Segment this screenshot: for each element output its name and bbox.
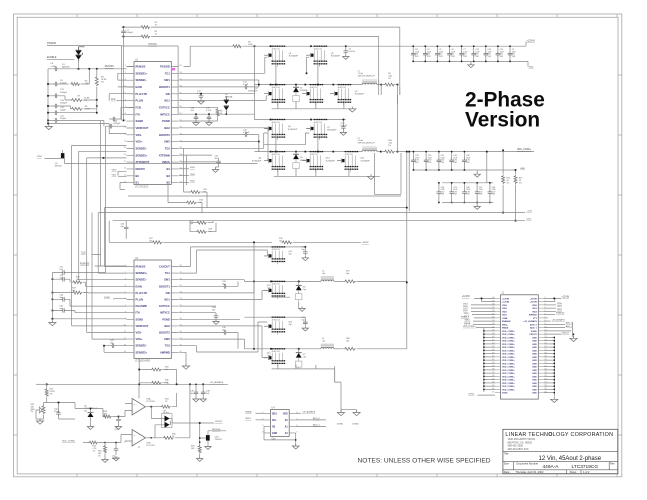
svg-text:GND: GND [532,373,537,375]
svg-text:VDD_CORE+: VDD_CORE+ [502,386,516,388]
svg-text:CROUT: CROUT [529,334,537,336]
net label CROUT analog [199,421,223,442]
svg-text:2N7002: 2N7002 [55,165,63,167]
svg-text:-: - [134,441,135,444]
svg-text:470pF: 470pF [54,411,60,413]
svg-text:Opt: Opt [110,342,114,345]
op-amp U5B LTC1991 [132,430,155,449]
wire phase1 gnd bus [272,102,356,112]
svg-text:100K: 100K [248,44,253,46]
svg-text:ITH: ITH [136,311,140,315]
capacitor C18 intvcc [191,108,200,126]
svg-text:Opt: Opt [267,286,271,289]
resistor R2 [140,31,158,38]
svg-text:VDD_CORE+: VDD_CORE+ [502,354,516,356]
svg-text:220pF: 220pF [60,118,67,120]
transistor Q4 dual [151,407,199,438]
svg-text:Opt: Opt [121,225,125,228]
wire TG1 gate drive [179,57,309,74]
svg-text:VDD_CORE+: VDD_CORE+ [502,350,516,352]
wire output row B rail [442,151,493,183]
svg-text:RUN/SS: RUN/SS [105,65,114,68]
svg-text:+12VIN: +12VIN [561,297,569,299]
svg-text:1%: 1% [101,82,104,84]
svg-text:GND: GND [532,344,537,346]
svg-text:SCL: SCL [272,420,277,422]
svg-text:Si7440DP: Si7440DP [361,160,371,162]
title block [503,429,618,474]
capacitor C33 boost [179,281,238,289]
svg-text:SENSE1+: SENSE1+ [136,271,148,275]
svg-text:VID1: VID1 [557,306,563,308]
net label +3V_ALWAYS U4 [296,411,316,414]
svg-text:Opt: Opt [222,329,226,332]
wire B1 down [120,182,127,189]
svg-text:SGND: SGND [136,119,144,123]
svg-text:B3: B3 [166,174,170,178]
wire U2 sw1 [179,280,244,282]
controller U2 LTC1629 [124,257,183,363]
svg-text:VID1: VID1 [112,175,118,177]
capacitor C17 vin bypass [197,91,204,105]
svg-text:Title: Title [504,452,509,456]
wire U2 bg2 [179,326,267,358]
capacitor C29 output row B [449,182,458,203]
net label SMDA [245,411,264,414]
svg-text:VDD_CORE+: VDD_CORE+ [502,344,516,346]
capacitor C48 [200,384,210,402]
resistor R13 [514,169,522,221]
wire J1 sgnd stub [544,330,572,332]
svg-text:SYNC: SYNC [502,393,508,395]
svg-text:CLKOUT: CLKOUT [159,265,170,269]
svg-text:1000pF: 1000pF [126,32,134,34]
capacitor C40 opt [290,317,309,331]
svg-text:INTVCC: INTVCC [160,112,170,116]
svg-text:VDD_CORE+: VDD_CORE+ [502,334,516,336]
svg-text:Si7440DP: Si7440DP [355,94,365,96]
svg-text:Si7440DP: Si7440DP [252,160,262,162]
svg-text:VDIFFOUT: VDIFFOUT [136,126,149,130]
ground output caps A [474,170,480,177]
svg-text:B1: B1 [136,181,140,185]
transistor Q15 opt [264,348,285,366]
svg-text:Sheet: Sheet [570,470,577,474]
svg-text:ENABLE: ENABLE [461,315,470,318]
svg-text:GND: GND [532,341,537,343]
svg-text:Si7440DP: Si7440DP [289,56,299,58]
svg-text:TG1: TG1 [165,71,171,75]
svg-text:BeThe: BeThe [163,412,169,414]
svg-text:Opt: Opt [302,248,306,251]
svg-text:ADD_0: ADD_0 [566,322,574,325]
wire sense line C [113,220,525,222]
svg-text:BG1: BG1 [164,99,170,103]
wire phase1 SW link [276,60,318,84]
svg-text:Opt: Opt [84,409,88,412]
net label VID1 U1 [112,175,127,177]
capacitor C43 [212,307,219,324]
svg-text:B2: B2 [166,181,170,185]
svg-text:Opt: Opt [60,276,64,279]
inductor L3 opt [321,271,340,282]
wire sense line A [104,207,406,209]
svg-text:EAIN: EAIN [136,85,142,89]
svg-text:0.47uF: 0.47uF [341,125,348,127]
capacitor C21 input [411,45,420,62]
wire row B bottom [272,296,290,298]
transistor Q8 [252,151,285,172]
capacitor C12 [47,89,68,100]
svg-text:BG2: BG2 [164,126,170,130]
svg-text:Opt: Opt [190,392,194,395]
wire opamp A input [75,403,132,417]
svg-text:Rev: Rev [610,461,615,465]
transistor Q7 [306,119,337,140]
svg-text:5%: 5% [519,182,522,184]
wire J1 VDD_CORE bus left [463,326,495,392]
svg-text:1%: 1% [50,394,53,396]
svg-text:GND: GND [532,337,537,339]
pin TG1 highlight [171,68,175,70]
svg-text:+1.5V: +1.5V [526,210,532,212]
svg-text:1%: 1% [93,450,96,452]
svg-text:GND: GND [532,360,537,362]
wire vid level shift [37,156,61,158]
svg-text:CROUT: CROUT [561,332,569,334]
svg-text:VDD_CORE+: VDD_CORE+ [502,370,516,372]
wire VDD_CORE rail [398,149,535,152]
wire U2 sense lines [72,267,127,326]
wire sense taps [379,80,400,104]
transistor Q12 opt [264,246,293,264]
capacitor C8 [48,61,127,71]
wire SW2 bus [255,142,363,153]
resistor R28 opt [340,338,407,350]
capacitor C20 boost2 [179,129,258,151]
capacitor C38 output row B [488,182,497,203]
svg-text:SGND: SGND [531,331,538,333]
svg-text:PHASMD: PHASMD [136,304,147,308]
svg-text:GND: GND [532,367,537,369]
svg-text:ADD_1: ADD_1 [566,325,574,328]
wire lower bank bottom bus [272,365,335,383]
svg-text:DGND: DGND [352,424,359,426]
capacitor C13 boost1 [179,81,258,89]
svg-text:+3V_ALWAYS: +3V_ALWAYS [552,318,566,321]
capacitor C45 opt [52,306,127,313]
net label +1.5V sense [526,210,532,212]
svg-text:Opt: Opt [302,318,306,321]
svg-text:VDIFFOUT: VDIFFOUT [136,324,149,328]
svg-text:Opt: Opt [60,268,64,271]
wire +3V rail analog [46,381,228,385]
svg-text:U5A: U5A [146,398,151,401]
transistor Q5 [330,84,365,105]
svg-text:2N7002: 2N7002 [215,439,223,441]
diode D2 UPS840 [293,84,309,104]
resistor R4 [95,69,107,100]
svg-text:Document Number: Document Number [516,461,538,465]
resistor R32 [151,384,190,439]
net label CROUT J1 [544,332,574,337]
capacitor C44 opt [52,294,127,306]
svg-text:BG2: BG2 [164,324,170,328]
svg-text:CROUT: CROUT [215,421,223,423]
capacitor C5 input [435,45,444,62]
capacitor C28 output row B [437,182,446,203]
svg-text:PWRGD: PWRGD [47,42,56,45]
wire right bus lines [374,80,410,349]
diode D4 UPS840 [293,152,309,171]
resistor R9 [71,100,97,113]
wire U2 sw2 [179,339,244,349]
svg-text:Si7440DP: Si7440DP [326,160,336,162]
svg-text:VDD_CORE+: VDD_CORE+ [502,347,516,349]
wire sense line B [98,212,525,214]
resistor R19 [279,238,369,244]
wire J1 enable smcl smda [461,313,495,325]
svg-text:Si7440DP: Si7440DP [288,129,298,131]
resistor R23 opt [52,288,127,295]
svg-text:SENSE2+: SENSE2+ [136,153,148,157]
svg-text:VOS-: VOS- [136,331,142,335]
svg-text:HS: HS [272,426,276,428]
svg-text:+12VIN: +12VIN [502,302,509,304]
capacitor C30 output row B [462,182,471,203]
svg-text:SDA: SDA [272,412,277,415]
svg-text:B4: B4 [166,167,170,171]
resistor R16 [189,221,213,226]
wire U2 pgnd [179,318,240,320]
svg-text:NOTES: UNLESS OTHER WISE SPEC: NOTES: UNLESS OTHER WISE SPECIFIED [358,457,491,464]
inductor L4 opt [321,338,340,349]
capacitor C52 [105,435,132,461]
svg-text:GND: GND [532,350,537,352]
resistor R1 [140,22,158,29]
svg-text:Opt: Opt [346,272,350,275]
wire BG1 gate [179,96,267,101]
input filter cluster: left rail [45,69,52,130]
svg-text:SW2: SW2 [164,337,170,341]
wire PGND [179,121,268,160]
potentiometer RU7 [31,403,47,425]
svg-text:1%: 1% [388,78,391,80]
svg-text:GND: GND [272,433,277,435]
wire INTVCC pin filter [179,113,254,115]
wire U2 extvcc intvcc [179,306,216,313]
net label RUN/SS analog [208,429,226,435]
svg-text:LTC1991: LTC1991 [146,401,155,403]
svg-text:Si7440DP: Si7440DP [327,130,337,132]
transistor Q14 opt [264,317,293,335]
net label RUN/SS U2 [80,263,127,266]
svg-text:GND: GND [529,66,534,68]
capacitor C53 ith [109,114,121,121]
svg-text:+3V_ALWAYS: +3V_ALWAYS [302,411,316,414]
ground SGND [335,366,357,426]
transistor Q10 [302,151,335,172]
capacitor C31 output row B [475,182,484,203]
svg-text:Opt: Opt [322,272,326,275]
wire +12VIN gnd rail [413,61,533,68]
capacitor C25 output [437,151,446,171]
svg-text:INTVCC: INTVCC [148,44,157,46]
ground J1 right aux [570,336,577,341]
controller U1 LTC3719CG [124,58,183,188]
wire U2 tg2 [179,322,267,352]
svg-text:Opt: Opt [303,355,307,358]
diode U3 LT1004 [75,406,103,430]
wire lower bank join [253,247,255,349]
svg-text:Opt: Opt [346,340,350,343]
net label CLK at U1 [111,98,127,101]
resistor R12 [502,149,510,213]
resistor R30 opt [138,369,169,385]
transistor Q11 [337,151,370,172]
wire U2 sgnd rail [49,273,127,326]
wire VIN bus phase2 [255,119,346,121]
resistor R27 opt [340,271,407,283]
svg-text:449A-A: 449A-A [543,464,560,470]
diode D7 opt [296,349,307,370]
wire lower bank row D bus [244,348,320,350]
resistor R25 [88,441,106,452]
svg-text:+5EXP: +5EXP [362,242,369,244]
svg-text:AMPMD: AMPMD [160,350,170,354]
svg-text:SGND: SGND [136,317,144,321]
wire U2 vin [179,281,254,293]
capacitor C32 input [471,45,480,62]
svg-text:PLLFLTR: PLLFLTR [136,291,147,295]
capacitor C14 [47,100,97,108]
svg-text:NOCPU: NOCPU [136,167,145,171]
wire C1 rail down [123,37,125,121]
transistor Q3 [306,46,341,67]
svg-text:VID0: VID0 [557,303,563,305]
IC U4 [262,406,298,440]
svg-text:SENSE1-: SENSE1- [136,278,147,282]
svg-text:4700pF: 4700pF [113,123,121,125]
svg-text:+5SB: +5SB [502,318,508,320]
net label SMCL [245,418,264,420]
ground DGND [352,410,360,425]
svg-text:GND: GND [532,380,537,382]
svg-text:1.0uF: 1.0uF [51,66,57,68]
net label VID4 right [179,167,195,169]
svg-text:SENSE2-: SENSE2- [136,147,147,151]
svg-text:Opt: Opt [279,240,283,243]
svg-text:VDD_CORE+: VDD_CORE+ [502,380,516,382]
svg-text:Opt: Opt [303,288,307,291]
svg-text:PLLIN: PLLIN [136,298,144,302]
svg-text:ENABLE: ENABLE [502,320,511,323]
svg-text:0.5%: 0.5% [526,219,531,221]
net label VDD_CORE analog [62,441,88,443]
svg-text:Opt: Opt [289,253,293,256]
svg-text:VDD_CORE+: VDD_CORE+ [502,337,516,339]
capacitor C15 [47,107,97,115]
capacitor C49 [190,384,199,402]
capacitor C50 [47,402,75,419]
svg-text:Version: Version [465,109,540,132]
svg-text:PGND: PGND [162,317,170,321]
resistor R14 [168,155,204,213]
capacitor C7 input [459,45,468,62]
svg-text:VID2: VID2 [557,309,563,311]
resistor R29 opt [139,359,176,385]
wire PGOOD pullup [184,45,256,66]
svg-text:LTC1629-6RG: LTC1629-6RG [135,360,151,363]
transistor Q6 [264,119,298,140]
svg-text:RUN/SS: RUN/SS [136,65,146,69]
svg-text:Opt: Opt [72,289,76,292]
capacitor C16 pll filter [104,120,127,133]
svg-text:SW1: SW1 [164,78,170,82]
ground input caps [468,61,474,67]
net label VID2 right [179,181,195,183]
svg-text:0.1uF: 0.1uF [197,93,203,95]
svg-text:4.7uF: 4.7uF [206,110,212,112]
svg-text:VDD: VDD [283,413,288,415]
capacitor C41 opt [52,127,105,275]
op-amp U5A LTC1991 [132,384,155,415]
net labels VID J1 right [544,303,563,312]
svg-text:1%: 1% [98,455,101,457]
wire J1 gnd bus right [544,337,558,403]
inductor L1 [358,71,383,86]
svg-text:LTC3719CG: LTC3719CG [572,464,599,470]
svg-text:Si7440DP: Si7440DP [331,56,341,58]
svg-text:10uF: 10uF [215,158,220,160]
svg-text:CEP125-1R2MC-H: CEP125-1R2MC-H [358,143,376,145]
svg-text:1%: 1% [104,416,107,418]
svg-text:BG1: BG1 [164,298,170,302]
svg-text:ADD_1: ADD_1 [530,327,538,330]
net labels VID J1 left [463,304,495,312]
inductor L2 [358,138,382,153]
svg-text:VIN: VIN [165,291,169,295]
capacitor C35 input [496,45,505,62]
svg-text:LTC3719CG: LTC3719CG [135,186,148,189]
svg-text:Date:: Date: [504,470,510,474]
svg-text:Thursday, April 04, 2002: Thursday, April 04, 2002 [516,470,544,474]
resistor R18 [190,223,216,234]
svg-text:VIN: VIN [165,92,169,96]
resistor R10 [381,140,398,153]
capacitor C51 [115,416,122,431]
connector J1 [492,292,547,399]
capacitor C9 input [508,45,517,62]
net label CLK U2 [81,121,101,267]
transistor Q1 [264,46,299,67]
capacitor C47 [103,340,126,352]
capacitor C21a [340,119,348,136]
svg-text:5%: 5% [31,411,34,413]
wire VIN pin to rail [179,46,254,119]
wire INTVCC label box [122,44,180,120]
svg-text:5%: 5% [507,182,510,184]
wire U2 clkout [179,247,244,267]
svg-text:GND: GND [532,354,537,356]
svg-text:SMDA: SMDA [464,322,471,325]
capacitor C37 output [462,151,471,171]
svg-text:SENSE2+: SENSE2+ [136,350,148,354]
wire sense2- row [64,146,257,291]
svg-text:VDD_CORE+: VDD_CORE+ [502,373,516,375]
svg-text:GND: GND [532,383,537,385]
net label VID0 U1 [112,170,127,176]
